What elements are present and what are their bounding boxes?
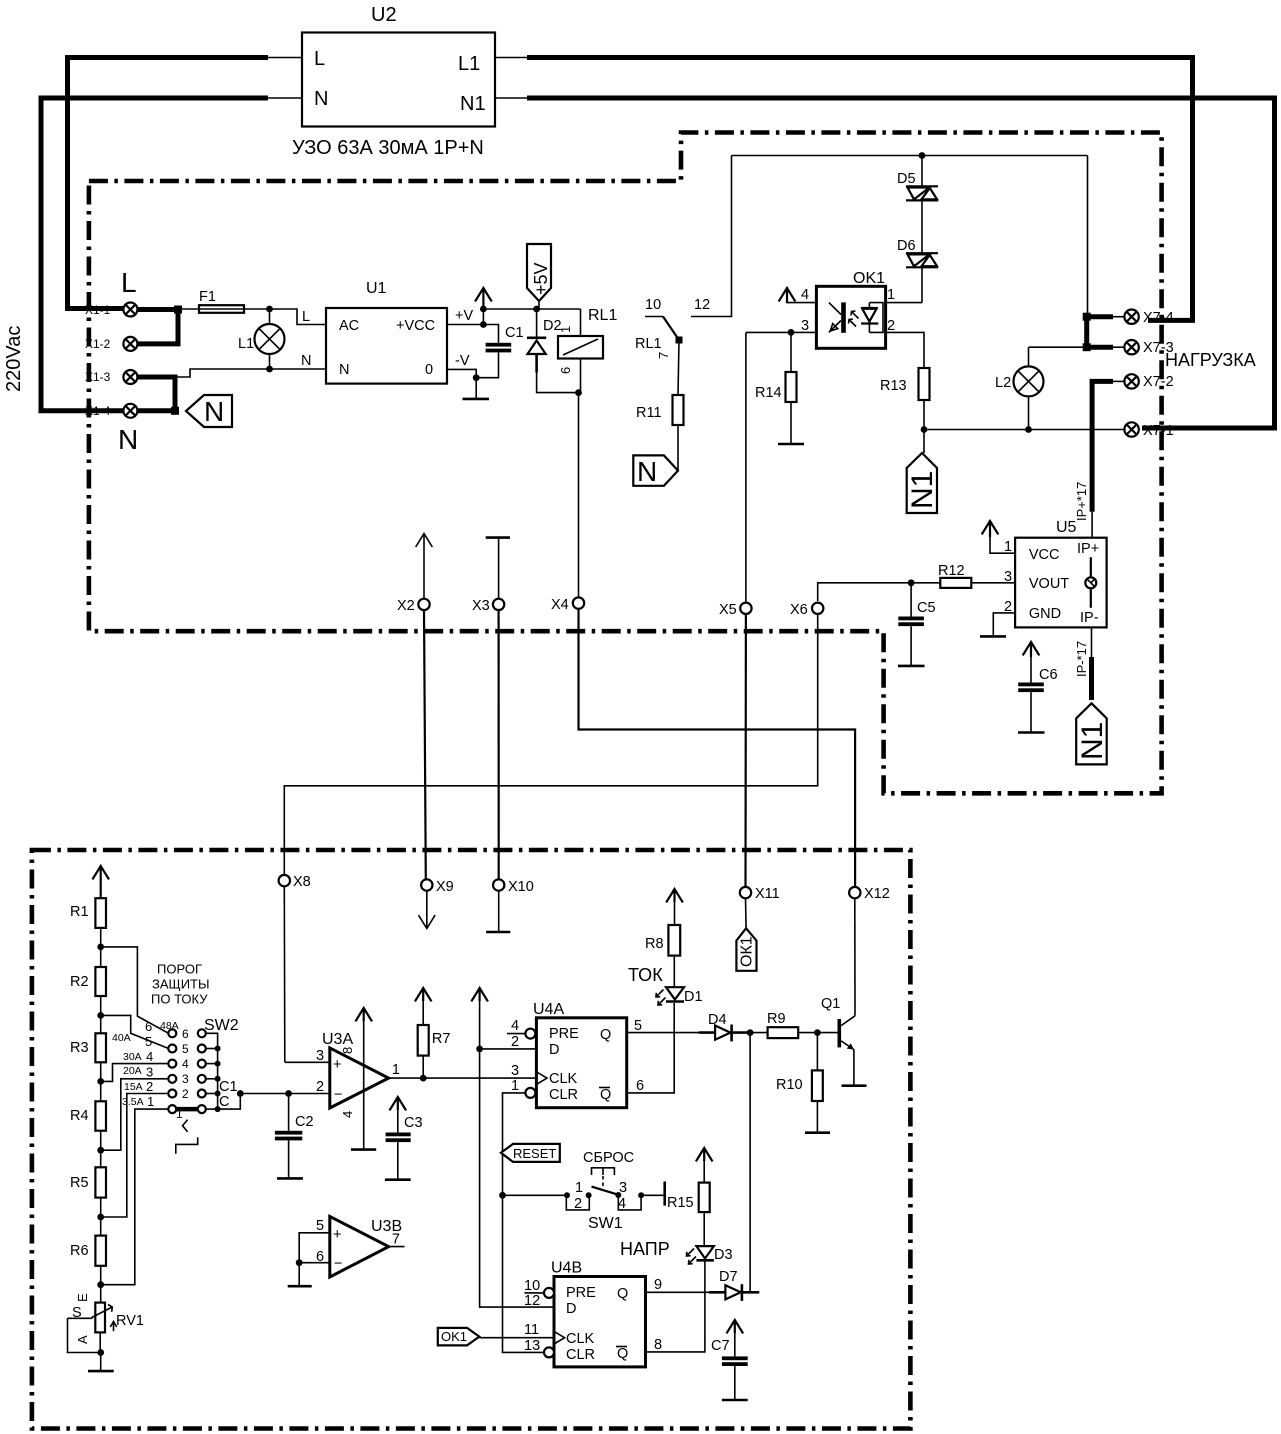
wire X7-2 thick down to U5 IP+ — [1092, 381, 1113, 511]
svg-text:6: 6 — [182, 1027, 189, 1041]
svg-text:IP+: IP+ — [1077, 541, 1099, 557]
junction D4 D7 R9 — [747, 1029, 754, 1036]
svg-text:X7-4: X7-4 — [1143, 310, 1174, 326]
junction 0V node — [473, 374, 480, 381]
svg-text:X7-2: X7-2 — [1143, 374, 1174, 390]
wire thick L1 from U2 to X7-4 — [527, 58, 1193, 321]
svg-text:0: 0 — [425, 362, 433, 378]
svg-text:D: D — [566, 1301, 576, 1317]
SW1 terminator bar — [663, 1182, 666, 1206]
svg-text:D6: D6 — [897, 238, 916, 254]
ground at Q1 emitter — [842, 1084, 867, 1087]
svg-text:OK1: OK1 — [441, 1329, 467, 1344]
power arrow at C7 — [727, 1320, 744, 1333]
svg-text:C2: C2 — [295, 1114, 314, 1130]
svg-text:SW2: SW2 — [204, 1017, 239, 1034]
wire U2 N pin stub — [266, 97, 302, 99]
svg-text:X10: X10 — [508, 879, 534, 895]
svg-text:3: 3 — [182, 1072, 189, 1086]
svg-text:X2: X2 — [397, 598, 415, 614]
svg-text:4: 4 — [801, 287, 809, 303]
svg-text:D5: D5 — [897, 171, 916, 187]
svg-text:C: C — [219, 1094, 229, 1110]
svg-text:НАПР: НАПР — [620, 1239, 670, 1259]
SW2 wiper bar — [176, 1107, 198, 1112]
svg-text:15А: 15А — [124, 1081, 143, 1093]
svg-text:N1: N1 — [906, 471, 939, 509]
OK1 phototriac — [861, 308, 878, 324]
svg-text:УЗО 63А 30мА 1P+N: УЗО 63А 30мА 1P+N — [292, 137, 484, 159]
potentiometer RV1 — [95, 1303, 105, 1333]
svg-text:R3: R3 — [70, 1040, 89, 1056]
svg-text:CLK: CLK — [549, 1071, 578, 1087]
ground at U5 — [980, 635, 1006, 638]
svg-text:4: 4 — [146, 1049, 153, 1064]
resistor R5 — [95, 1167, 106, 1197]
svg-text:C5: C5 — [917, 600, 936, 616]
RCD U2 box — [302, 33, 495, 127]
svg-text:8: 8 — [654, 1337, 662, 1353]
wire D4 junction down to D7 — [749, 1033, 751, 1293]
D1 light arrows — [656, 990, 666, 1006]
svg-text:PRE: PRE — [566, 1285, 596, 1301]
svg-text:N: N — [204, 396, 224, 427]
junction R13 N1 — [921, 426, 928, 433]
SW2 right contacts — [198, 1029, 206, 1113]
resistor R10 — [816, 1033, 818, 1071]
junction RV1 bottom — [97, 1349, 104, 1356]
SW2 left contacts — [168, 1029, 176, 1113]
svg-text:7: 7 — [656, 352, 671, 359]
svg-text:X5: X5 — [719, 602, 737, 618]
svg-text:40А: 40А — [112, 1032, 131, 1044]
svg-text:X11: X11 — [755, 886, 780, 902]
svg-text:1: 1 — [511, 1078, 519, 1094]
flag +5V — [533, 306, 540, 313]
U3B input tie — [299, 1233, 330, 1285]
wire OK1 pin2 to R13 — [886, 332, 924, 368]
wire D6 to OK1 pin1 — [886, 302, 922, 304]
node X11 — [740, 887, 751, 898]
node X8 — [279, 875, 290, 886]
resistor R14 — [790, 332, 792, 372]
svg-text:R7: R7 — [432, 1031, 451, 1047]
wire R11 to N flag — [677, 425, 679, 470]
svg-text:N1: N1 — [460, 93, 486, 115]
flag N at X1-4 — [186, 395, 232, 427]
U4A clock mark — [536, 1072, 547, 1085]
flag OK1 to CLK — [438, 1328, 480, 1346]
wire X3 to X10 — [498, 610, 500, 879]
power supply U1 — [326, 308, 447, 384]
svg-text:R6: R6 — [70, 1243, 89, 1259]
svg-text:N: N — [118, 424, 138, 455]
svg-text:ЗАЩИТЫ: ЗАЩИТЫ — [152, 977, 210, 992]
svg-text:1: 1 — [575, 1180, 583, 1196]
ground at R10 — [805, 1131, 830, 1134]
tap R4R5 to SW2 pin3 — [101, 1079, 169, 1150]
svg-text:VCC: VCC — [1029, 547, 1060, 563]
svg-text:X12: X12 — [864, 886, 890, 902]
svg-text:X9: X9 — [436, 879, 454, 895]
svg-text:OK1: OK1 — [853, 270, 885, 287]
svg-text:30А: 30А — [123, 1051, 142, 1063]
flag N1 at IP- — [1076, 703, 1107, 764]
ground at C2 — [277, 1177, 303, 1180]
svg-text:1: 1 — [887, 287, 895, 303]
thick jumper X7-4 X7-3 — [1087, 317, 1113, 348]
resistor R2 — [95, 967, 106, 996]
svg-text:5: 5 — [182, 1042, 189, 1056]
terminal X7-1 — [1124, 422, 1138, 436]
junction RESET SW1 — [499, 1192, 506, 1199]
wire F1 to U1 AC — [244, 309, 326, 325]
svg-text:U1: U1 — [366, 280, 387, 297]
svg-text:ПОРОГ: ПОРОГ — [157, 962, 202, 977]
node X5 — [745, 332, 747, 602]
svg-text:U5: U5 — [1056, 519, 1077, 536]
wire U2 N1 pin stub — [495, 97, 529, 99]
wire X6 to X8 — [284, 614, 817, 875]
svg-text:R1: R1 — [70, 904, 89, 920]
svg-text:Е: Е — [75, 1293, 90, 1302]
svg-text:GND: GND — [1029, 606, 1061, 622]
svg-text:RL1: RL1 — [588, 307, 617, 324]
U3A pin3 wire — [285, 1061, 330, 1063]
power arrow at R15 — [696, 1148, 713, 1161]
svg-text:R13: R13 — [880, 378, 907, 394]
junction +V node — [480, 321, 487, 328]
junction RL1 D2 X4 — [575, 389, 582, 396]
ground at C5 — [898, 665, 925, 668]
resistor R13 — [919, 368, 930, 400]
svg-text:+VCC: +VCC — [396, 318, 435, 334]
OK1 led — [829, 303, 841, 333]
ground at RV1 — [100, 1353, 102, 1371]
svg-text:VOUT: VOUT — [1029, 576, 1069, 592]
svg-text:−: − — [334, 1256, 342, 1272]
svg-text:ТОК: ТОК — [628, 965, 663, 985]
U3A output wire — [389, 1077, 537, 1079]
node rail D5 top — [732, 155, 1088, 157]
ground at U3B — [288, 1285, 312, 1288]
junction X1-1 F1 — [174, 306, 182, 314]
ground at C6 — [1018, 731, 1045, 734]
power arrow at C6 — [1023, 642, 1040, 657]
wire X1-3 to U1 N — [177, 369, 326, 377]
svg-text:R4: R4 — [70, 1108, 89, 1124]
SW1 actuator — [592, 1168, 615, 1188]
svg-text:10: 10 — [645, 297, 661, 313]
node X10 with bar — [493, 879, 504, 890]
svg-text:А: А — [75, 1335, 90, 1344]
svg-text:4: 4 — [340, 1111, 355, 1118]
svg-text:X4: X4 — [551, 597, 569, 613]
svg-text:6: 6 — [145, 1019, 152, 1034]
svg-text:U2: U2 — [371, 4, 397, 26]
junction U4A D — [476, 1046, 483, 1053]
svg-text:3.5А: 3.5А — [122, 1096, 144, 1108]
junction +V rail — [480, 306, 487, 313]
svg-text:SW1: SW1 — [588, 1215, 623, 1232]
flag RESET — [501, 1144, 560, 1162]
resistor R11 — [678, 340, 679, 395]
power arrow D rail — [471, 988, 488, 1001]
svg-text:F1: F1 — [199, 289, 216, 305]
svg-text:N: N — [339, 362, 349, 378]
wire OK1 pin4 — [787, 300, 816, 303]
svg-text:Q1: Q1 — [821, 996, 840, 1012]
SW2 common bus — [206, 1033, 218, 1109]
wire X2 to X9 — [424, 610, 426, 879]
svg-text:8: 8 — [340, 1047, 355, 1054]
wire IP- out of U5 — [1091, 627, 1093, 658]
tap R1R2 to SW2 pin6 — [101, 947, 169, 1033]
svg-text:U3A: U3A — [322, 1031, 353, 1048]
svg-text:C1: C1 — [505, 325, 524, 341]
svg-text:AC: AC — [339, 318, 359, 334]
power arrow at OK1 pin4 — [779, 288, 796, 303]
svg-text:IP+*17: IP+*17 — [1074, 482, 1089, 521]
svg-text:C7: C7 — [711, 1338, 730, 1354]
flag N1 at R13 — [923, 430, 925, 454]
wire X12 to Q1 collector — [854, 898, 856, 1016]
node X12 — [849, 887, 860, 898]
U3B output stub — [389, 1246, 405, 1248]
svg-text:R2: R2 — [70, 974, 89, 990]
svg-text:X7-1: X7-1 — [1143, 423, 1174, 439]
terminal X7-3 — [1113, 346, 1125, 348]
svg-text:+5V: +5V — [531, 262, 551, 295]
ground at R14 — [790, 402, 792, 444]
svg-text:-V: -V — [455, 353, 470, 369]
svg-text:L: L — [314, 48, 325, 70]
wire L2 top to X7-3 node — [1029, 346, 1087, 348]
svg-text:X6: X6 — [790, 602, 808, 618]
power arrow at U5 VCC — [982, 521, 999, 537]
SW2 detent bracket — [183, 1120, 188, 1132]
resistor R7 — [418, 1025, 429, 1056]
wire U1 0 out — [447, 369, 476, 377]
svg-text:11: 11 — [524, 1322, 539, 1338]
resistor R4 — [95, 1101, 106, 1130]
wire 12 up to D5 rail — [712, 156, 732, 317]
svg-text:СБРОС: СБРОС — [583, 1150, 634, 1166]
svg-text:N1: N1 — [1076, 722, 1109, 760]
wire U2 L1 pin stub — [495, 57, 529, 59]
svg-text:PRE: PRE — [549, 1026, 579, 1042]
power section border — [89, 133, 1162, 794]
svg-text:Q: Q — [600, 1027, 611, 1043]
wire IP+ into U5 — [1091, 512, 1093, 538]
wire X1-1 X1-2 jumper — [138, 310, 179, 344]
svg-text:4: 4 — [182, 1057, 189, 1071]
ground at C3 — [385, 1178, 411, 1181]
resistor R6 — [95, 1236, 106, 1266]
svg-text:N: N — [637, 456, 657, 487]
svg-text:R8: R8 — [645, 936, 664, 952]
svg-text:CLR: CLR — [566, 1347, 595, 1363]
svg-text:7: 7 — [392, 1232, 400, 1248]
flag N at R11 — [633, 455, 678, 485]
resistor R15 — [699, 1183, 710, 1213]
svg-text:RESET: RESET — [513, 1146, 556, 1161]
flag OK1 at X11 — [745, 898, 748, 928]
junction R9 R10 base — [814, 1029, 821, 1036]
power arrow +V — [475, 288, 492, 309]
wire +V up — [482, 309, 484, 325]
wire R12 to X6 — [818, 583, 941, 601]
svg-text:2: 2 — [316, 1079, 324, 1095]
wire X5 to X11 — [744, 614, 747, 887]
OK1 light arrows — [849, 311, 859, 327]
wire U1 +VCC out — [447, 324, 483, 326]
terminal X7-2 — [1113, 380, 1125, 382]
svg-text:+: + — [333, 1227, 341, 1243]
junction R7 output — [420, 1075, 427, 1082]
tap R3R4 to SW2 pin4 — [101, 1064, 169, 1082]
svg-text:N: N — [301, 353, 311, 369]
wire D rail to U4B D — [480, 999, 554, 1307]
svg-text:L2: L2 — [995, 375, 1011, 391]
svg-text:Q: Q — [600, 1087, 611, 1103]
svg-text:L1: L1 — [458, 53, 480, 75]
svg-text:IP-: IP- — [1080, 610, 1099, 626]
ground at U3A pin4 — [351, 1148, 376, 1151]
node X2 with up arrow — [416, 534, 433, 599]
node X4 — [578, 393, 580, 598]
contact arm RL1 — [663, 317, 679, 341]
svg-text:НАГРУЗКА: НАГРУЗКА — [1165, 350, 1256, 370]
svg-text:12: 12 — [694, 297, 710, 313]
svg-text:IP-*17: IP-*17 — [1074, 641, 1089, 677]
resistor R9 — [750, 1032, 768, 1034]
svg-text:9: 9 — [654, 1277, 662, 1293]
wire rail down to X7-4 — [1087, 156, 1089, 317]
junction R3 R4 — [97, 1078, 104, 1085]
svg-text:3: 3 — [146, 1065, 153, 1080]
resistor R8 — [668, 925, 680, 956]
svg-text:N: N — [314, 88, 328, 110]
U5 internal sensor — [1090, 557, 1092, 608]
svg-text:ПО ТОКУ: ПО ТОКУ — [151, 992, 208, 1007]
ground at C7 — [722, 1399, 748, 1402]
node X3 with bar — [486, 536, 510, 539]
D3 light arrows — [687, 1249, 697, 1265]
svg-text:5: 5 — [145, 1034, 152, 1049]
svg-text:X3: X3 — [472, 598, 490, 614]
tap R5R6 to SW2 pin2 — [101, 1094, 169, 1218]
power arrow at C3 — [390, 1097, 407, 1110]
U4B clock mark — [554, 1331, 565, 1344]
svg-text:D3: D3 — [714, 1247, 733, 1263]
svg-text:D7: D7 — [719, 1269, 738, 1285]
RV1 wiper — [92, 1305, 113, 1318]
svg-text:L: L — [121, 267, 137, 298]
svg-text:C6: C6 — [1039, 667, 1058, 683]
svg-text:10: 10 — [524, 1278, 540, 1294]
svg-text:R10: R10 — [776, 1077, 803, 1093]
junction L1 bottom — [266, 366, 273, 373]
svg-text:−: − — [334, 1087, 342, 1103]
svg-text:D1: D1 — [684, 989, 703, 1005]
terminal X7-4 — [1113, 316, 1125, 318]
svg-text:220Vac: 220Vac — [3, 326, 25, 392]
junction R4 R5 — [97, 1147, 104, 1154]
svg-text:C1: C1 — [219, 1079, 238, 1095]
svg-text:CLK: CLK — [566, 1331, 595, 1347]
tap R2R3 to SW2 pin5 — [101, 1015, 169, 1048]
wire +V rail to RL1 — [483, 308, 580, 310]
power arrow above R1 — [92, 866, 109, 898]
svg-text:R12: R12 — [938, 563, 965, 579]
junction R5 R6 — [97, 1214, 104, 1221]
junction X1-4 N — [171, 407, 179, 415]
wire R13 to X7-1 — [924, 429, 1132, 431]
svg-text:Q: Q — [617, 1346, 628, 1362]
junction R1 R2 — [97, 944, 104, 951]
svg-text:1: 1 — [558, 326, 573, 333]
svg-text:RL1: RL1 — [635, 336, 662, 352]
svg-text:4: 4 — [511, 1018, 519, 1034]
svg-text:Q: Q — [617, 1286, 628, 1302]
svg-text:D: D — [549, 1042, 559, 1058]
thick IP- wire — [1089, 657, 1094, 700]
svg-text:R9: R9 — [767, 1011, 786, 1027]
svg-text:6: 6 — [636, 1078, 644, 1094]
wire thick N1 from U2 to X7-1 — [527, 98, 1275, 428]
svg-text:R5: R5 — [70, 1175, 89, 1191]
wire thick L from U2 to X1-1 — [68, 58, 269, 309]
svg-text:+V: +V — [455, 308, 473, 324]
wire 0V to C1 bottom — [476, 352, 498, 377]
svg-text:1: 1 — [392, 1062, 400, 1078]
wire D3 down to U4B pin8 — [646, 1260, 705, 1352]
svg-text:ОК1: ОК1 — [739, 936, 756, 967]
node X6 — [812, 603, 823, 614]
wire U2 L pin stub — [266, 57, 302, 59]
svg-text:R14: R14 — [755, 385, 782, 401]
svg-text:L: L — [302, 309, 310, 325]
svg-text:12: 12 — [524, 1293, 540, 1309]
svg-text:R15: R15 — [667, 1195, 694, 1211]
svg-text:1: 1 — [147, 1094, 154, 1109]
svg-text:X8: X8 — [293, 874, 311, 890]
svg-text:2: 2 — [146, 1079, 153, 1094]
svg-text:U4A: U4A — [533, 1001, 564, 1018]
svg-text:CLR: CLR — [549, 1087, 578, 1103]
control section border — [32, 850, 911, 1429]
svg-text:2: 2 — [511, 1034, 519, 1050]
svg-text:U4B: U4B — [551, 1260, 582, 1277]
node X9 with down arrow — [421, 879, 432, 890]
resistor R3 — [95, 1033, 106, 1062]
ground at U1 — [475, 378, 477, 398]
wire X1-3 X1-4 jumper — [138, 377, 176, 411]
svg-text:20А: 20А — [123, 1065, 142, 1077]
svg-text:R11: R11 — [636, 405, 662, 421]
svg-text:6: 6 — [558, 367, 573, 374]
svg-text:5: 5 — [634, 1018, 642, 1034]
junction R2 R3 — [97, 1012, 104, 1019]
power arrow at R7 — [415, 988, 432, 1001]
wire thick N from U2 to X1-4 — [41, 98, 268, 411]
svg-text:3: 3 — [316, 1048, 324, 1064]
wire OK1 pin3 — [746, 331, 817, 333]
wire X8 down — [283, 886, 286, 1062]
svg-text:RV1: RV1 — [116, 1313, 144, 1329]
svg-text:2: 2 — [182, 1087, 189, 1101]
